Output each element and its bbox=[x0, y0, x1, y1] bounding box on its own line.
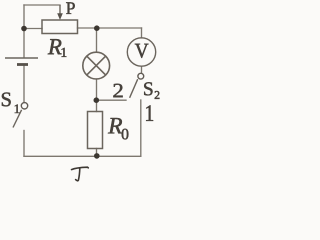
wire battery to switch S1 bbox=[23, 66, 25, 103]
label R1 subscript bbox=[62, 48, 67, 57]
wire top horizontal from left corner to slider bbox=[24, 4, 60, 6]
voltmeter letter V bbox=[135, 44, 148, 58]
switch S1 pivot circle bbox=[21, 103, 27, 109]
label S2 subscript bbox=[155, 91, 160, 99]
label R0 subscript bbox=[122, 129, 129, 140]
label contact 1 bbox=[146, 105, 153, 121]
node B junction dot (R1 / lamp / voltmeter) bbox=[94, 25, 100, 31]
battery short thick plate bbox=[17, 63, 28, 66]
label S1 subscript bbox=[15, 104, 20, 113]
label contact 2 bbox=[113, 84, 122, 97]
wire down into voltmeter top bbox=[141, 28, 143, 38]
wire lamp bottom to R0 top bbox=[96, 79, 98, 112]
label R0 letter bbox=[108, 118, 122, 133]
wire S2 contact 2 horizontal bbox=[96, 99, 126, 101]
wire S1 lower terminal to bottom corner bbox=[23, 131, 25, 157]
resistor R1 (rheostat body) bbox=[42, 20, 78, 34]
switch S1 blade bbox=[13, 110, 22, 128]
battery long plate bbox=[5, 57, 38, 59]
label P bbox=[66, 2, 75, 13]
handwritten mark below bottom rail bbox=[72, 167, 89, 181]
wire left vertical upper (corner to battery) bbox=[23, 5, 25, 57]
node C junction dot (lamp / R0 / contact 2) bbox=[94, 97, 100, 103]
label S1 letter bbox=[2, 93, 11, 107]
wire S2 contact 1 vertical right side bbox=[140, 100, 142, 156]
wire bottom rail bbox=[24, 155, 141, 157]
node A junction dot (battery / R1 tap) bbox=[21, 26, 27, 32]
resistor R0 body bbox=[88, 112, 103, 149]
label R1 letter bbox=[48, 39, 62, 54]
wire lamp branch upper bbox=[96, 28, 98, 52]
lamp (circle with X) bbox=[83, 52, 110, 79]
slider arrow P of rheostat bbox=[57, 5, 63, 20]
label S2 letter bbox=[144, 82, 152, 95]
wire R0 bottom to bottom rail bbox=[96, 149, 98, 157]
wire R1 right to voltmeter corner bbox=[78, 27, 142, 29]
wire from junction A to R1 left bbox=[24, 28, 42, 30]
voltmeter U1 circle bbox=[127, 38, 155, 66]
node D junction dot (bottom rail / R0) bbox=[94, 153, 100, 159]
switch S2 blade bbox=[130, 79, 138, 98]
switch S2 pivot circle bbox=[138, 73, 144, 79]
wire voltmeter bottom to S2 pivot bbox=[141, 66, 143, 73]
